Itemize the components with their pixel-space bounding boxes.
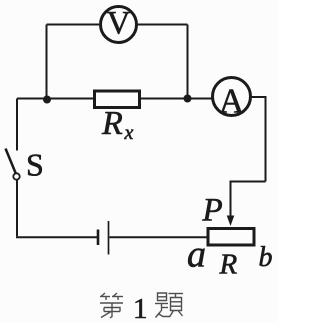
label S <box>26 147 44 183</box>
voltmeter V <box>101 6 137 43</box>
node A (left junction dot) <box>43 96 51 104</box>
node B (right junction dot) <box>184 95 192 103</box>
wire left rail top corner to resistor Rx <box>17 98 93 100</box>
wire voltmeter to top-right corner <box>138 24 188 26</box>
slider arrow P onto rheostat <box>227 181 235 227</box>
battery cell (long plate) <box>108 221 110 255</box>
resistor Rx <box>95 91 140 144</box>
wire voltmeter branch vertical (node A up) <box>46 25 48 99</box>
rheostat R (slide resistor box) <box>208 229 254 246</box>
svg-text:1: 1 <box>133 293 148 323</box>
svg-text:b: b <box>259 242 273 273</box>
caption 题 (hand-drawn) <box>155 293 183 318</box>
svg-text:a: a <box>187 234 206 276</box>
svg-text:x: x <box>124 122 134 144</box>
wire ammeter right horizontal <box>251 96 266 98</box>
wire bottom left to battery <box>16 236 97 238</box>
wire top-left horizontal (node A to voltmeter) <box>47 24 100 26</box>
battery cell (short plate) <box>97 230 100 246</box>
wire top-right vertical down to node B <box>187 25 189 99</box>
switch S hinge circle <box>13 173 19 179</box>
svg-text:A: A <box>219 82 245 121</box>
svg-text:S: S <box>26 147 44 183</box>
svg-text:V: V <box>107 6 131 42</box>
label a <box>187 234 206 276</box>
caption 1 <box>133 293 148 323</box>
wire left rail upper segment <box>16 99 18 151</box>
wire to slider P horizontal <box>231 181 266 183</box>
wire right vertical down <box>265 96 267 182</box>
wire battery to rheostat <box>110 236 207 238</box>
svg-text:P: P <box>202 193 223 229</box>
label R <box>219 249 238 281</box>
label P <box>202 193 223 229</box>
svg-text:R: R <box>219 249 238 281</box>
ammeter A <box>213 78 251 121</box>
wire left rail lower segment <box>16 180 18 237</box>
wire resistor Rx to ammeter <box>141 98 213 100</box>
label b <box>259 242 273 273</box>
caption 第 (hand-drawn) <box>100 293 123 318</box>
switch S lever <box>6 149 16 174</box>
svg-text:R: R <box>101 105 123 142</box>
